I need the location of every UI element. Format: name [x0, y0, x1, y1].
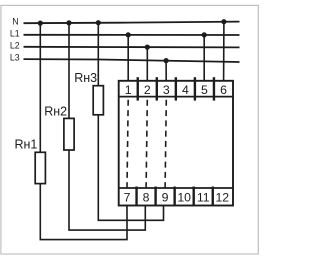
- junction dot N/terminal6: [221, 19, 226, 24]
- wire N to terminal 6: [223, 22, 225, 81]
- wire L1 to terminal 1: [127, 35, 129, 81]
- top terminal dividers: [138, 77, 214, 100]
- terminal numbers 7-12: [124, 190, 230, 204]
- bottom terminal dividers: [137, 187, 213, 205]
- svg-text:1: 1: [125, 83, 132, 97]
- svg-text:Rн3: Rн3: [74, 71, 97, 85]
- svg-text:L3: L3: [10, 53, 20, 63]
- bus L3: [24, 59, 240, 62]
- junction dot N/Rн2: [66, 20, 71, 25]
- wire from N to Rн1 and load return: [40, 23, 127, 240]
- wire from N to Rн2 and load return: [69, 23, 145, 230]
- svg-text:5: 5: [201, 83, 208, 97]
- junction dot N/Rн1: [38, 21, 43, 26]
- svg-text:3: 3: [163, 83, 170, 97]
- svg-text:6: 6: [220, 83, 227, 97]
- relay box outline: [119, 81, 233, 206]
- svg-text:L2: L2: [10, 41, 20, 51]
- junction dot L3/terminal3: [164, 58, 169, 63]
- top terminal strip line: [119, 96, 233, 98]
- terminal numbers 1-6: [125, 83, 227, 97]
- resistor Rн2: [64, 118, 74, 150]
- resistor Rн1: [35, 152, 45, 183]
- dashed contact 3-9: [165, 100, 166, 188]
- svg-text:9: 9: [162, 190, 169, 204]
- svg-text:11: 11: [197, 190, 210, 204]
- svg-text:Rн2: Rн2: [44, 105, 67, 119]
- svg-text:8: 8: [143, 190, 150, 204]
- junction dot L1/terminal1: [126, 32, 131, 37]
- wire L1 to terminal 5: [203, 35, 205, 81]
- bus L1: [24, 34, 240, 36]
- svg-text:N: N: [12, 17, 18, 27]
- junction dot N/Rн3: [96, 20, 101, 25]
- svg-text:2: 2: [144, 83, 151, 97]
- border frame (decorative): [1, 5, 258, 254]
- resistor Rн3: [93, 86, 103, 115]
- wire L2 to terminal 2: [146, 47, 148, 81]
- junction dot L2/terminal2: [145, 45, 150, 50]
- dashed contact 2-8: [146, 100, 147, 188]
- wire from N to Rн3 and load return: [98, 23, 163, 221]
- svg-text:7: 7: [124, 190, 131, 204]
- svg-text:4: 4: [182, 83, 189, 97]
- svg-text:L1: L1: [10, 29, 20, 39]
- dashed contact 1-7: [127, 100, 128, 188]
- bottom terminal strip line: [119, 187, 233, 189]
- svg-text:12: 12: [215, 190, 229, 204]
- junction dot L1/terminal5: [202, 32, 207, 37]
- svg-text:10: 10: [177, 190, 191, 204]
- bus L2: [24, 46, 240, 49]
- bus N: [24, 22, 240, 24]
- wire L3 to terminal 3: [165, 61, 167, 81]
- svg-text:Rн1: Rн1: [15, 137, 38, 151]
